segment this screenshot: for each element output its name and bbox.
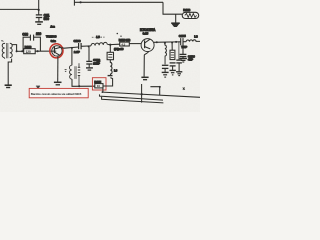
value 4.8P	[188, 58, 193, 62]
resistor R116	[120, 42, 130, 46]
node V1 rail1	[141, 93, 143, 95]
wire column B drop	[171, 43, 173, 51]
wire Q2 emitter down	[144, 52, 149, 77]
faint mark	[50, 25, 55, 28]
svg-text:10: 10	[97, 84, 101, 88]
capacitor C11	[36, 15, 42, 22]
node main line left	[16, 50, 18, 52]
svg-text:7.5P: 7.5P	[181, 45, 187, 49]
node after R113	[37, 50, 39, 52]
value 0.047	[44, 17, 50, 21]
ground (Q1 emitter)	[54, 82, 62, 85]
svg-text:48P: 48P	[188, 58, 193, 62]
mystery blob	[36, 86, 40, 89]
wire top-left horizontal	[0, 8, 39, 10]
svg-text:4P: 4P	[97, 62, 100, 66]
label 0.2s	[51, 39, 57, 43]
label R118	[183, 8, 190, 12]
node RC left	[21, 50, 23, 52]
ground (C11)	[35, 22, 43, 24]
value 220	[36, 32, 41, 36]
transistor Q1	[52, 46, 62, 56]
ground (L6)	[108, 75, 113, 77]
wire R115 right up to L6	[103, 78, 113, 86]
svg-text:L5: L5	[96, 35, 100, 39]
value 18P	[93, 61, 98, 65]
label KTC2875A	[140, 28, 156, 32]
wire R118 ground drop	[175, 14, 177, 23]
resistor R118	[182, 12, 199, 18]
wire top supply bus	[74, 0, 163, 6]
capacitor C100	[79, 43, 82, 49]
wire bottom rail 1	[102, 92, 200, 97]
label C105	[179, 34, 186, 38]
node bus C	[175, 41, 177, 43]
capacitor C102	[86, 61, 92, 67]
wire stub connector	[150, 87, 159, 96]
label L8	[194, 34, 198, 38]
svg-text:2.1P: 2.1P	[74, 50, 80, 54]
label C102	[93, 58, 100, 62]
inductor L5	[91, 42, 107, 46]
svg-text:L6: L6	[114, 68, 118, 72]
svg-text:Bardzo czesto wlacza sie uklad: Bardzo czesto wlacza sie uklad N115	[31, 92, 82, 96]
wire C106 drop	[182, 42, 184, 54]
node junction top-left	[38, 9, 40, 11]
node on top bus	[80, 1, 82, 3]
label C11	[44, 13, 50, 17]
wire Q1 collector	[61, 47, 78, 48]
ground (column C)	[176, 72, 182, 76]
label 0.25	[143, 32, 149, 36]
label R113	[25, 45, 32, 49]
transistor Q2	[141, 39, 154, 52]
node bus B	[171, 41, 173, 43]
wire column C drop	[178, 42, 180, 60]
trimmer box N2	[107, 52, 113, 59]
capacitor C106	[180, 54, 187, 58]
tick mark	[183, 87, 185, 90]
wire bottom rail 3	[102, 97, 164, 103]
wire T2 top	[71, 48, 73, 65]
svg-text:0.25: 0.25	[143, 32, 149, 36]
label T1	[1, 40, 3, 42]
node bus A	[164, 42, 166, 44]
node collector Q2	[156, 41, 158, 43]
node stub top	[159, 86, 161, 88]
svg-text:C100: C100	[74, 39, 81, 43]
label L6	[114, 68, 118, 72]
wire T2 bottom to R115	[72, 79, 95, 86]
wire vertical V1	[141, 84, 143, 103]
wire C102 drop	[88, 46, 90, 61]
red annotation box around R115	[92, 78, 106, 90]
wire R116 to Q2	[129, 43, 141, 45]
capacitor C105	[181, 38, 183, 45]
ground (C102)	[86, 68, 93, 70]
svg-text:4.5: 4.5	[121, 42, 125, 46]
dashed line L5	[92, 36, 105, 38]
transformer T2	[69, 63, 80, 86]
wire tank drop	[109, 45, 111, 53]
svg-text:R118: R118	[183, 8, 190, 12]
wire main line to RC group	[17, 50, 24, 52]
ground (column B)	[170, 70, 176, 75]
inductor L8	[186, 40, 200, 42]
ground (T1)	[5, 85, 12, 87]
node collector junction	[71, 47, 73, 49]
svg-text:C105: C105	[179, 34, 186, 38]
value (3.3+10)	[114, 47, 124, 51]
svg-text:Ann: Ann	[50, 25, 55, 28]
value 2.1P	[74, 50, 80, 54]
wire T1 bottom to ground	[8, 59, 11, 85]
wire after C100	[81, 45, 91, 47]
speck marks	[117, 33, 122, 37]
paper background	[0, 0, 200, 112]
label C106	[188, 54, 195, 58]
transformer T1	[2, 43, 12, 59]
wire top-left vertical	[38, 0, 40, 15]
wire after R113	[35, 50, 56, 52]
trimmer capacitor column B	[170, 50, 175, 59]
label 4P	[97, 62, 100, 66]
node rail1 left	[102, 91, 104, 93]
svg-text:L8: L8	[194, 34, 198, 38]
svg-text:220: 220	[36, 32, 41, 36]
label R115	[94, 80, 101, 84]
node R115 left	[78, 85, 80, 87]
wire T1 secondary top to main line	[12, 45, 17, 52]
wire Q1 emitter down	[57, 56, 59, 82]
svg-text:0.2s: 0.2s	[51, 39, 57, 43]
node C102 tap	[88, 45, 90, 47]
resistor R115	[95, 84, 103, 89]
svg-text:(33)+10: (33)+10	[114, 47, 124, 51]
wire after L5	[108, 43, 120, 45]
ground (Q2 emitter)	[141, 77, 148, 79]
capacitor column B	[170, 63, 176, 70]
inductor L7 column A	[165, 43, 167, 65]
label C100	[74, 39, 81, 43]
ground (column A)	[162, 72, 169, 77]
wire bottom rail 2	[100, 94, 164, 100]
resistor R113	[24, 49, 36, 54]
svg-text:TC1006: TC1006	[46, 34, 57, 38]
node tank junction	[109, 44, 111, 46]
wire R115 to bottom rail 1	[102, 88, 104, 92]
capacitor column A	[162, 65, 169, 72]
capacitor column C	[176, 60, 182, 71]
svg-text:560: 560	[44, 17, 50, 21]
svg-text:C98: C98	[22, 32, 28, 36]
red annotation box with note	[29, 88, 88, 97]
label C98	[22, 32, 28, 36]
label R116	[119, 38, 131, 42]
wire top-right corner down	[163, 2, 182, 14]
ground (R118)	[171, 23, 180, 26]
inductor L6	[110, 60, 112, 76]
label KTC1006	[46, 34, 57, 38]
label N2	[97, 58, 101, 62]
capacitor C98 branch	[23, 35, 40, 52]
red annotation circle around Q1	[50, 44, 63, 58]
speck near T2	[65, 70, 67, 72]
wire Q2 collector bus	[154, 41, 181, 44]
ground (C106)	[179, 59, 187, 63]
svg-text:120: 120	[26, 50, 31, 54]
value 7.5P	[181, 45, 187, 49]
wire after C105	[183, 41, 186, 43]
label L5	[96, 35, 100, 39]
